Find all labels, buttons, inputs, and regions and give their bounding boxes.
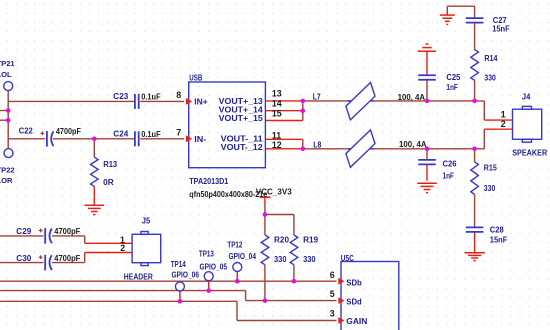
svg-text:SDb: SDb — [346, 278, 362, 288]
svg-text:IN-: IN- — [194, 135, 206, 144]
svg-text:USB: USB — [189, 74, 202, 83]
svg-text:R20: R20 — [274, 235, 290, 244]
svg-text:3: 3 — [330, 309, 335, 319]
svg-text:1nF: 1nF — [443, 172, 455, 181]
svg-text:R19: R19 — [303, 235, 319, 244]
svg-text:VCC_3V3: VCC_3V3 — [256, 188, 292, 197]
svg-text:L8: L8 — [313, 141, 322, 150]
svg-text:R15: R15 — [484, 164, 498, 173]
svg-text:U5C: U5C — [341, 254, 354, 263]
svg-text:GPIO_04: GPIO_04 — [229, 252, 257, 261]
svg-text:C22: C22 — [19, 127, 34, 136]
svg-text:TP22: TP22 — [0, 166, 15, 175]
svg-text:TP14: TP14 — [171, 260, 187, 269]
svg-text:J5: J5 — [142, 216, 151, 225]
svg-text:SPEAKER: SPEAKER — [512, 149, 547, 158]
svg-text:C23: C23 — [113, 92, 129, 101]
svg-text:4700pF: 4700pF — [54, 227, 80, 236]
svg-text:C26: C26 — [443, 160, 458, 169]
svg-text:2: 2 — [501, 119, 506, 129]
svg-text:100, 4A: 100, 4A — [398, 93, 426, 102]
svg-text:R13: R13 — [103, 160, 118, 169]
svg-text:330: 330 — [484, 184, 496, 193]
svg-text:330: 330 — [484, 73, 496, 82]
svg-text:GPIO_05: GPIO_05 — [200, 263, 228, 272]
svg-text:7: 7 — [176, 128, 181, 138]
svg-text:2: 2 — [120, 243, 125, 253]
svg-text:TP13: TP13 — [199, 250, 215, 259]
svg-text:13: 13 — [272, 89, 282, 99]
svg-text:R14: R14 — [484, 54, 498, 63]
svg-text:14: 14 — [272, 99, 282, 109]
svg-text:0.1uF: 0.1uF — [141, 130, 161, 139]
svg-text:1nF: 1nF — [446, 83, 458, 92]
svg-text:4700pF: 4700pF — [54, 254, 80, 263]
svg-text:15nF: 15nF — [492, 25, 510, 34]
svg-text:4700pF: 4700pF — [56, 127, 81, 136]
svg-text:5: 5 — [330, 289, 335, 299]
svg-text:TP21: TP21 — [0, 59, 15, 68]
svg-text:C27: C27 — [493, 16, 507, 25]
svg-text:6: 6 — [330, 270, 335, 280]
svg-text:LOL: LOL — [0, 70, 12, 79]
svg-text:TPA2013D1: TPA2013D1 — [189, 177, 229, 186]
svg-text:C29: C29 — [16, 227, 32, 236]
svg-text:15nF: 15nF — [490, 235, 508, 244]
svg-text:100, 4A: 100, 4A — [399, 140, 427, 149]
svg-text:12: 12 — [272, 140, 282, 150]
svg-text:L7: L7 — [313, 92, 321, 101]
svg-text:330: 330 — [274, 255, 287, 264]
svg-text:0.1uF: 0.1uF — [141, 93, 161, 102]
svg-text:VOUT-_12: VOUT-_12 — [221, 143, 263, 152]
svg-text:C28: C28 — [490, 225, 505, 234]
svg-text:C25: C25 — [446, 73, 461, 82]
svg-text:SDd: SDd — [346, 296, 362, 306]
svg-text:GAIN: GAIN — [346, 316, 367, 326]
svg-text:LOR: LOR — [0, 176, 13, 185]
svg-text:15: 15 — [272, 108, 282, 118]
svg-text:C24: C24 — [113, 130, 129, 139]
svg-text:8: 8 — [176, 90, 181, 100]
svg-text:C30: C30 — [16, 254, 32, 263]
svg-text:HEADER: HEADER — [124, 273, 153, 282]
svg-text:J4: J4 — [522, 92, 531, 101]
svg-text:TP12: TP12 — [227, 241, 243, 250]
svg-text:VOUT+_15: VOUT+_15 — [219, 114, 263, 123]
svg-text:0R: 0R — [103, 178, 114, 187]
svg-text:GPIO_06: GPIO_06 — [172, 271, 200, 280]
svg-text:IN+: IN+ — [194, 97, 208, 106]
svg-text:330: 330 — [303, 255, 316, 264]
